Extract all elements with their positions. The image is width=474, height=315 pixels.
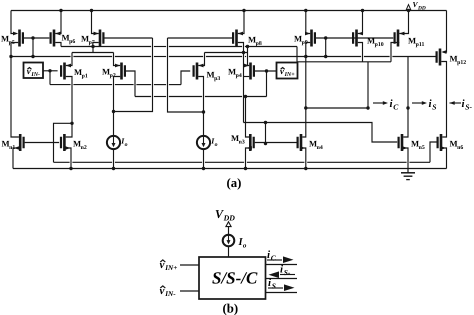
wire: vIN- box to Mp1 gate (43, 70, 58, 72)
wire: Mp9-Mp10-Mp11 gate wire (316, 37, 393, 39)
transistor Mp8 source arrow (238, 32, 243, 36)
transistor Mp9 source arrow (305, 32, 310, 36)
svg-text:S/S-/C: S/S-/C (212, 269, 258, 288)
wire: Mn4 source to rail (302, 148, 306, 169)
wire: Mp9 drain/Mn4 drain vertical (305, 44, 307, 108)
transistor Mp5 source arrow (13, 32, 18, 36)
transistor Mn3 source arrow (247, 146, 252, 150)
transistor Mp12 (439, 49, 442, 66)
wire: vIN- input (b) (180, 290, 199, 292)
current arrow iS (412, 102, 424, 104)
wire: Mn5 drain bend (403, 131, 408, 137)
wire: vIN+ routing down (266, 71, 268, 97)
node dot vIN+ gate node (265, 69, 268, 72)
node dot bridge/drain crossing (242, 51, 245, 54)
wire: vIN- routing down-right to Mp3 gate (49, 71, 51, 85)
current source Io-2 (197, 136, 210, 149)
wire: pair source link y46.5 (61, 46, 151, 48)
wire: folded drain bus y61.8 (297, 61, 391, 63)
wire: Mp3 source riser (198, 53, 204, 66)
current source Io (b) (223, 235, 235, 247)
node dot Mn4 drain corner (304, 106, 307, 109)
wire: Mp1 source to bridge (66, 53, 72, 66)
wire: node rail y56.5 (Mp5 drain to Mp12 gate) (11, 56, 71, 58)
transistor Mp4 (249, 63, 252, 80)
wire: iC output line y108 (306, 107, 368, 109)
wire: tail-1 to ground rail (113, 149, 115, 168)
wire: gate tap down to node A (32, 38, 34, 57)
wire: Mp11 source riser (399, 11, 408, 34)
ground (407, 169, 409, 173)
svg-text:n3: n3 (239, 139, 245, 145)
wire: Mn3 source to rail (246, 148, 250, 169)
wire: Mn3/Mn4/Mn5 gate line y122.5 (244, 123, 398, 143)
node dot source link left (91, 45, 94, 48)
transistor Mn4 source arrow (300, 146, 305, 150)
wire: Mp10 drain down to folded bus (358, 43, 363, 62)
transistor Mn4 (300, 134, 303, 151)
node dot Mn4 source ground (304, 167, 307, 170)
wire: iC tap up to folded bus (367, 62, 369, 108)
transistor Mn6 (440, 134, 443, 151)
node dot on Mn3-Mn4 gate wire (264, 142, 267, 145)
wire: Mn1 gate-node link (54, 123, 73, 162)
svg-text:(b): (b) (223, 302, 239, 315)
node dot Mp1/Mn2 drain tap (70, 122, 73, 125)
transistor Mn2 source arrow (65, 146, 70, 150)
transistor Mp8 (235, 30, 238, 47)
wire: Mp12 drain down to Mn6 drain (iS- line) (441, 62, 446, 132)
wire: source link step down (296, 47, 298, 62)
transistor Mp5 (18, 30, 21, 47)
transistor Mn5 (401, 134, 404, 151)
wire: tail-2 to ground rail (203, 149, 205, 168)
power VDD symbol (triangle) (406, 5, 411, 10)
transistor Mp3 (196, 63, 199, 80)
svg-text:o: o (215, 142, 218, 148)
wire: Mp4 drain to shared vertical (244, 76, 250, 78)
svg-text:n5: n5 (419, 145, 425, 151)
wire: Mp11 drain down to folded bus (391, 43, 399, 62)
svg-text:p4: p4 (236, 73, 242, 79)
transistor Mp6 (53, 30, 56, 47)
transistor Mp1 source arrow (66, 64, 71, 68)
wire: Mp3 drain down to tail 2 (198, 77, 203, 136)
transistor Mp11 (397, 30, 400, 47)
transistor Mp10 (355, 30, 358, 47)
svg-text:S: S (272, 281, 276, 290)
wire: Mp8 drain down (shared with Mp4 drain) (238, 43, 244, 123)
transistor Mn3 (249, 134, 252, 151)
wire: gate-node step up to Mn6 gate (430, 142, 437, 162)
wire: Mn6 source to rail end (442, 148, 446, 169)
wire: VDD top rail (11, 10, 447, 12)
node dot iS junction (406, 106, 409, 109)
wire: Mn2 drain riser (66, 130, 72, 138)
svg-text:S-: S- (465, 102, 472, 111)
node dot rail gate tap (31, 55, 34, 58)
node dot source link right (246, 45, 249, 48)
node dot Mp8 source at rail (242, 9, 245, 12)
node dot Mp9 gate tie (324, 55, 327, 58)
wire: Mp10 source riser (358, 11, 363, 34)
wire: Mp2 gate jog down to cross line (126, 71, 135, 97)
transistor Mp6 source arrow (55, 32, 60, 36)
svg-text:S-: S- (284, 268, 291, 277)
wire: Mn3 drain riser (246, 97, 250, 138)
wire: Mn4 drain riser (305, 108, 307, 131)
transistor Mn1 source arrow (14, 146, 19, 150)
input box vIN- (24, 63, 44, 79)
node dot Mn2 source ground (69, 167, 72, 170)
transistor Mp7 (99, 30, 102, 47)
wire: Mp6 drain to source link (55, 43, 61, 47)
wire: Mp9 gate tap down to Mp12 gate line (325, 38, 327, 57)
node dot Mp9 gate tap (324, 36, 327, 39)
wire: Mp5 drain down-left (11, 43, 18, 57)
wire: VDD to current source (b) (228, 227, 230, 235)
svg-text:p2: p2 (110, 73, 116, 79)
node dot Mp11 source at rail (407, 9, 410, 12)
wire: iS- output (b) (266, 278, 298, 280)
wire: iS vertical (407, 57, 409, 132)
svg-text:IN+: IN+ (284, 72, 296, 78)
svg-text:p8: p8 (256, 41, 262, 47)
wire: Mp3-Mp4 source bridge (205, 52, 248, 54)
node dot Mn3 drain tap (244, 95, 247, 98)
current source Io-1 (107, 136, 120, 149)
transistor Mp9 (310, 30, 313, 47)
svg-text:p11: p11 (416, 42, 425, 48)
wire: Mp1 drain down to Mn2 drain (66, 77, 72, 130)
transistor Mn1 (19, 134, 22, 151)
svg-text:p1: p1 (82, 73, 88, 79)
wire: vIN+ input (b) (180, 264, 199, 266)
wire: Mn1-Mn2 gate wire (25, 142, 60, 144)
transistor Mp7 source arrow (94, 32, 99, 36)
wire: Mp2 source riser (114, 53, 121, 66)
current arrow iS- (450, 101, 455, 105)
node dot tail-2/W2 junction (202, 110, 205, 113)
svg-text:(a): (a) (227, 176, 242, 190)
svg-text:p10: p10 (375, 42, 384, 48)
node dot tail-2 ground (202, 167, 205, 170)
wire: iC output (b) (266, 264, 298, 266)
svg-text:DD: DD (223, 213, 236, 222)
svg-text:o: o (243, 241, 247, 249)
wire: Mp8 source riser (238, 11, 244, 34)
wire: vIN+/Mp2-gate cross line y96.5 (135, 96, 151, 98)
wire: Mp4 source riser (248, 47, 250, 66)
svg-text:IN-: IN- (164, 290, 176, 298)
node dot Mp6 source at rail (59, 9, 62, 12)
node dot Mp5/Mp6 gate tap (31, 36, 34, 39)
svg-text:o: o (125, 142, 128, 148)
wire: Mp8 gate to cross wire W2 (168, 37, 233, 39)
wire: Mp4 gate to vIN+ box (254, 70, 276, 72)
power VDD symbol (b) (226, 222, 231, 227)
node dot tail-1/W1 junction (112, 110, 115, 113)
input box vIN+ (277, 63, 298, 79)
transistor Mp3 source arrow (198, 64, 203, 68)
svg-text:n2: n2 (81, 145, 87, 151)
wire: current source to block (b) (228, 246, 230, 257)
transistor Mn2 (63, 134, 66, 151)
wire: Mn6 drain bend (442, 131, 446, 137)
svg-text:DD: DD (417, 6, 426, 12)
transistor Mp10 source arrow (358, 32, 363, 36)
wire: Mn1 drain from left vertical (11, 57, 19, 138)
wire: Mp2 drain down to tail 1 (114, 77, 121, 136)
wire: Mp7 drain down-left (93, 43, 99, 47)
wire: Mp7 gate to cross wire W1 (105, 37, 153, 39)
node dot iC junction (366, 106, 369, 109)
wire: Mn5 source to ground (403, 148, 408, 169)
wire: cross wire W1 (Mp7/Mp2 gates) (114, 38, 153, 112)
svg-text:IN-: IN- (30, 72, 40, 78)
transistor Mp2 (120, 63, 123, 80)
wire: Mn2 source to rail (66, 148, 71, 169)
svg-text:C: C (393, 102, 399, 111)
wire: Mp9 drain down-left (306, 43, 310, 45)
svg-text:n6: n6 (457, 145, 463, 151)
svg-text:C: C (271, 253, 277, 262)
node dot gate line drop (264, 121, 267, 124)
transistor Mp4 source arrow (244, 64, 249, 68)
wire: iS output (b) (266, 292, 298, 294)
svg-text:p3: p3 (214, 76, 220, 82)
transistor Mn6 source arrow (441, 146, 446, 150)
block S/S-/C (199, 257, 266, 299)
node dot Mp7 source at rail (90, 9, 93, 12)
node dot Mn3 source ground (244, 167, 247, 170)
wire: Mn4 drain riser (302, 131, 306, 137)
wire: Mp7 source riser (92, 11, 99, 34)
wire: Mp6 source riser (55, 11, 61, 34)
wire: right rail drop to Mp12 source (443, 11, 447, 53)
transistor Mp12 source arrow (441, 50, 446, 54)
wire: left VDD drop to Mp5 source (11, 11, 15, 34)
svg-text:p12: p12 (457, 60, 466, 66)
transistor Mn5 source arrow (402, 146, 407, 150)
node dot vIN- gate node (48, 69, 51, 72)
wire: Mn1 source to rail (13, 148, 19, 169)
wire: Mp5-Mp6 gate wire (24, 37, 49, 39)
transistor Mp2 source arrow (115, 64, 120, 68)
wire: cross wire W2 (Mp8 gate to tail 2) (168, 38, 204, 112)
transistor Mp1 (63, 63, 66, 80)
wire: gate line drop to Mn3/Mn4 gate wire (265, 123, 267, 144)
node dot rail left end (9, 55, 12, 58)
wire: Mn1 gate-node long line y162.3 (54, 161, 70, 163)
wire: Mp1-Mp2 source bridge (72, 52, 114, 54)
svg-text:n4: n4 (317, 145, 323, 151)
svg-text:S: S (432, 102, 436, 111)
node dot Mp9 source at rail (304, 9, 307, 12)
wire: ground rail (13, 168, 447, 170)
node dot Mp9 drain at rail (304, 55, 307, 58)
svg-text:p6: p6 (69, 39, 75, 45)
wire: Mp9 source riser (306, 11, 310, 34)
current arrow iC (373, 102, 385, 104)
svg-text:IN+: IN+ (164, 264, 177, 272)
wire: bridge stub to source link (92, 47, 94, 53)
transistor Mp11 source arrow (399, 32, 404, 36)
node dot Mp10 source at rail (361, 9, 364, 12)
wire: Mn3-Mn4 gate wire (255, 142, 297, 144)
node dot tail-1 ground (112, 167, 115, 170)
